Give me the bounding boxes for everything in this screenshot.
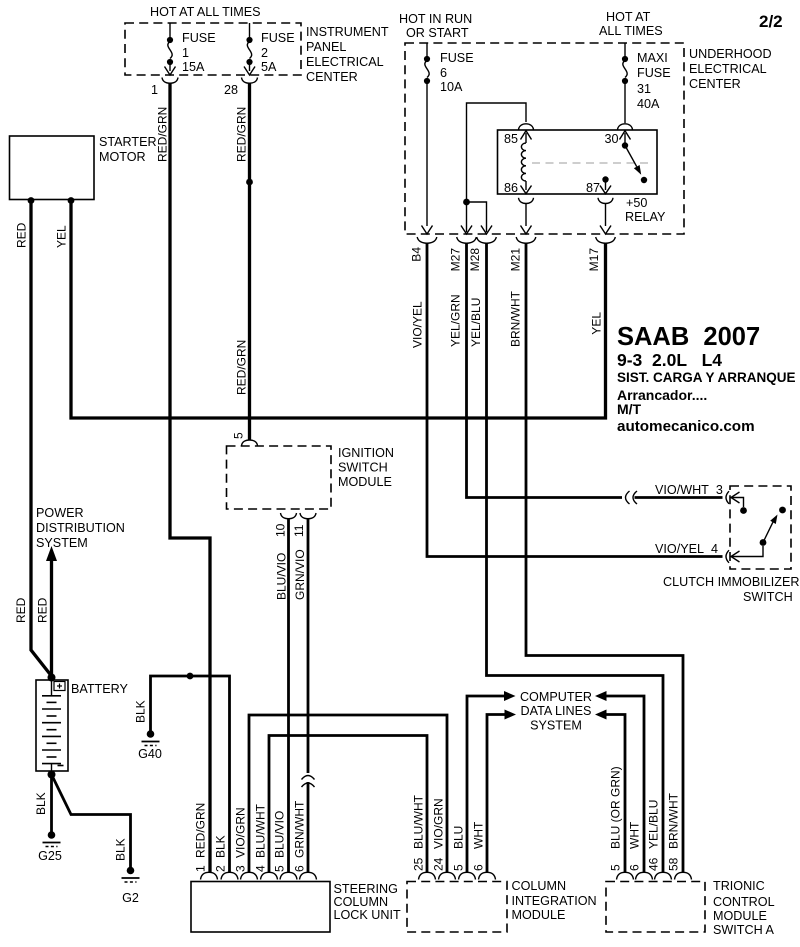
svg-text:85: 85 (504, 132, 518, 146)
svg-text:31: 31 (637, 82, 651, 96)
svg-text:ALL TIMES: ALL TIMES (599, 24, 663, 38)
clutch switch pin 3 entry (726, 491, 747, 514)
relay +50 box (498, 130, 658, 194)
svg-text:BLK: BLK (134, 700, 148, 723)
wire YEL from starter motor to underhood M17 (71, 201, 606, 419)
svg-text:87: 87 (586, 181, 600, 195)
svg-text:YEL: YEL (590, 312, 604, 335)
svg-text:FUSE: FUSE (182, 31, 216, 45)
svg-text:FUSE: FUSE (637, 66, 671, 80)
svg-text:BLU/WHT: BLU/WHT (412, 794, 426, 849)
svg-text:POWER: POWER (36, 506, 84, 520)
svg-text:OR START: OR START (406, 26, 469, 40)
connectors below underhood box (B4 M27 M28 M21 M17) (417, 237, 615, 243)
svg-text:G25: G25 (38, 849, 62, 863)
wire BLU/VIO ignition pin 10 to steering column lock pin 5 (287, 519, 290, 872)
svg-text:BLU (OR GRN): BLU (OR GRN) (609, 766, 623, 849)
svg-text:SAAB 2007: SAAB 2007 (617, 323, 760, 351)
svg-text:M/T: M/T (617, 401, 642, 417)
column integration pin connectors 25 24 5 6 (419, 872, 496, 879)
svg-text:MODULE: MODULE (713, 909, 767, 923)
relay switch pin 30 to 87 (586, 131, 647, 195)
svg-text:DATA LINES: DATA LINES (521, 704, 592, 718)
svg-text:2: 2 (261, 46, 268, 60)
svg-text:BLU/VIO: BLU/VIO (273, 811, 287, 858)
svg-text:G2: G2 (122, 891, 139, 905)
svg-text:RED/GRN: RED/GRN (235, 107, 249, 162)
svg-text:4: 4 (254, 865, 268, 872)
svg-text:10A: 10A (440, 80, 463, 94)
fuse F2 5A (244, 23, 295, 75)
svg-text:YEL/BLU: YEL/BLU (647, 800, 661, 849)
svg-text:40A: 40A (637, 97, 660, 111)
svg-text:SYSTEM: SYSTEM (36, 536, 88, 550)
svg-text:MOTOR: MOTOR (99, 150, 146, 164)
wire BLK battery negative to ground G25 (34, 775, 52, 832)
svg-text:INTEGRATION: INTEGRATION (512, 894, 597, 908)
svg-text:FUSE: FUSE (440, 51, 474, 65)
fuse F1 15A (165, 23, 216, 75)
svg-text:SWITCH: SWITCH (338, 461, 388, 475)
svg-text:B4: B4 (410, 247, 424, 262)
svg-text:5: 5 (452, 864, 466, 871)
svg-text:HOT AT ALL TIMES: HOT AT ALL TIMES (150, 5, 261, 19)
wire BLU/WHT steering pin 4 to column integration pin 25 (269, 736, 427, 873)
svg-text:BLU/WHT: BLU/WHT (254, 803, 268, 858)
svg-text:RELAY: RELAY (625, 210, 666, 224)
wire RED/GRN from fuse 2 to ignition switch module pin 5 (248, 83, 251, 440)
svg-text:YEL: YEL (55, 225, 69, 248)
svg-text:CONTROL: CONTROL (713, 895, 775, 909)
wire VIO/YEL B4 to clutch immobilizer switch pin 4 (427, 243, 723, 557)
svg-text:15A: 15A (182, 60, 205, 74)
svg-text:VIO/YEL 4: VIO/YEL 4 (655, 542, 718, 556)
relay coil pin 85 to 86 (504, 131, 532, 195)
svg-text:FUSE: FUSE (261, 31, 295, 45)
svg-text:COLUMN: COLUMN (334, 895, 389, 909)
ignition switch module (dashed box) (227, 446, 394, 509)
svg-text:10: 10 (274, 523, 288, 537)
svg-text:MODULE: MODULE (512, 908, 566, 922)
clutch immobilizer switch (dashed box) (663, 486, 799, 604)
wire color labels below underhood box (411, 290, 604, 348)
connector below fuse 2 / pin 28 (224, 78, 258, 98)
clutch switch arm and fixed contact (763, 507, 786, 543)
svg-text:LOCK UNIT: LOCK UNIT (334, 908, 401, 922)
wire BLK steering column lock pin 2 to ground G40 (134, 673, 230, 872)
connector at relay pin 85 (519, 124, 534, 130)
trionic control module (dashed box) (606, 879, 775, 937)
svg-text:VIO/GRN: VIO/GRN (234, 807, 248, 858)
wire RED/GRN from fuse 1 to steering column lock pin 1 (170, 83, 210, 872)
svg-text:MODULE: MODULE (338, 475, 392, 489)
svg-text:BLU/VIO: BLU/VIO (275, 553, 289, 600)
svg-text:5: 5 (232, 432, 246, 439)
svg-text:TRIONIC: TRIONIC (713, 879, 765, 893)
svg-text:STEERING: STEERING (334, 882, 398, 896)
svg-text:SIST. CARGA Y ARRANQUE: SIST. CARGA Y ARRANQUE (617, 370, 796, 385)
svg-text:MAXI: MAXI (637, 51, 668, 65)
svg-text:+50: +50 (626, 196, 647, 210)
column integration module (dashed box) (407, 879, 597, 932)
wire GRN/VIO-GRN/WHT ignition pin 11 to steering column lock pin 6 (293, 519, 315, 872)
svg-text:58: 58 (667, 857, 681, 871)
ground G25 (38, 831, 62, 863)
svg-text:VIO/YEL: VIO/YEL (411, 301, 425, 348)
wire WHT from trionic pin 6 to data lines (arrow) (595, 691, 644, 872)
svg-text:YEL/BLU: YEL/BLU (469, 298, 483, 347)
wire RED from starter motor to battery positive (31, 201, 52, 677)
computer data lines system label (520, 690, 592, 733)
svg-text:1: 1 (194, 865, 208, 872)
svg-text:YEL/GRN: YEL/GRN (449, 294, 463, 347)
svg-text:RED/GRN: RED/GRN (235, 340, 249, 395)
svg-text:RED: RED (14, 597, 28, 623)
svg-text:9-3 2.0L L4: 9-3 2.0L L4 (617, 350, 722, 370)
svg-text:24: 24 (432, 857, 446, 871)
wire BLU from column integration pin 5 to data lines (arrow) (467, 691, 516, 872)
relay internal dashed divider (532, 162, 650, 164)
svg-text:30: 30 (604, 132, 618, 146)
steering column lock pin labels (194, 800, 307, 872)
svg-text:RED: RED (36, 597, 50, 623)
fuse F6 10A (424, 43, 474, 226)
svg-text:5A: 5A (261, 60, 277, 74)
svg-text:VIO/GRN: VIO/GRN (432, 798, 446, 849)
svg-text:1: 1 (182, 46, 189, 60)
svg-text:SYSTEM: SYSTEM (530, 719, 582, 733)
svg-text:G40: G40 (138, 747, 162, 761)
wire BLK battery negative to ground G2 (52, 775, 131, 868)
svg-text:25: 25 (412, 857, 426, 871)
arrows entering underhood box bottom: B4 M27 M28 M21 M17 (422, 226, 612, 235)
steering column lock pin connectors 1-6 (201, 872, 317, 879)
svg-text:BATTERY: BATTERY (71, 682, 129, 696)
svg-text:GRN/WHT: GRN/WHT (293, 800, 307, 858)
ground G40 (138, 730, 162, 761)
svg-text:BLK: BLK (34, 792, 48, 815)
connectors at ignition pins 10 11 (274, 513, 317, 537)
wire YEL/BLU M28 to trionic pin 46 (487, 243, 664, 872)
wire VIO/GRN steering pin 3 to column integration pin 24 (249, 715, 447, 872)
wire RED battery positive to power distribution system (arrow up) (14, 546, 57, 676)
svg-text:11: 11 (292, 524, 306, 537)
connector below relay pin 87 (598, 198, 613, 204)
svg-text:M28: M28 (468, 248, 482, 272)
wire feeding relay coil from M27/M28 junction (463, 103, 526, 232)
svg-text:RED/GRN: RED/GRN (156, 107, 170, 162)
underhood electrical center (dashed box) (405, 43, 684, 234)
starter motor box (10, 135, 157, 204)
svg-text:BRN/WHT: BRN/WHT (509, 290, 523, 347)
svg-text:CENTER: CENTER (689, 77, 741, 91)
svg-text:BLU: BLU (452, 826, 466, 849)
svg-text:5: 5 (273, 865, 287, 872)
svg-text:2/2: 2/2 (759, 12, 783, 31)
svg-text:STARTER: STARTER (99, 135, 157, 149)
connector at ignition pin 5 (232, 432, 258, 446)
svg-text:COMPUTER: COMPUTER (520, 690, 592, 704)
svg-text:automecanico.com: automecanico.com (617, 418, 755, 435)
trionic pin connectors 5 6 46 58 (617, 872, 692, 879)
svg-text:RED/GRN: RED/GRN (194, 803, 208, 858)
wire WHT from column integration pin 6 to data lines (arrow) (487, 710, 516, 873)
svg-text:1: 1 (151, 83, 158, 97)
connector below relay pin 86 (519, 198, 534, 204)
wire YEL/GRN M27 to clutch immobilizer switch pin 3 (467, 243, 623, 498)
column integration pin labels (412, 794, 486, 871)
svg-text:IGNITION: IGNITION (338, 446, 394, 460)
instrument panel electrical center (dashed box) (125, 23, 301, 75)
svg-text:DISTRIBUTION: DISTRIBUTION (36, 521, 125, 535)
maxi fuse 31 40A (622, 43, 671, 123)
svg-text:HOT AT: HOT AT (606, 10, 651, 24)
steering column lock unit box (191, 882, 401, 933)
svg-text:CLUTCH IMMOBILIZER: CLUTCH IMMOBILIZER (663, 575, 799, 589)
svg-text:6: 6 (472, 864, 486, 871)
connector at relay pin 30 (618, 124, 633, 130)
svg-text:WHT: WHT (628, 821, 642, 849)
svg-text:46: 46 (647, 857, 661, 871)
svg-text:6: 6 (293, 865, 307, 872)
svg-text:2: 2 (214, 865, 228, 872)
svg-text:WHT: WHT (472, 821, 486, 849)
svg-text:CENTER: CENTER (306, 70, 358, 84)
svg-text:HOT IN RUN: HOT IN RUN (399, 12, 472, 26)
relay label +50 RELAY (625, 196, 666, 224)
svg-text:VIO/WHT 3: VIO/WHT 3 (655, 483, 723, 497)
svg-text:M27: M27 (449, 248, 463, 272)
svg-text:M21: M21 (509, 248, 523, 272)
svg-text:ELECTRICAL: ELECTRICAL (306, 55, 384, 69)
svg-text:UNDERHOOD: UNDERHOOD (689, 47, 772, 61)
battery (36, 674, 129, 779)
svg-text:GRN/VIO: GRN/VIO (293, 549, 307, 600)
connector below fuse 1 / pin 1 (151, 78, 178, 98)
svg-text:ELECTRICAL: ELECTRICAL (689, 62, 767, 76)
svg-text:SWITCH: SWITCH (743, 590, 793, 604)
svg-text:BLK: BLK (214, 835, 228, 858)
svg-text:INSTRUMENT: INSTRUMENT (306, 25, 389, 39)
svg-text:SWITCH A: SWITCH A (713, 923, 774, 937)
svg-text:RED: RED (15, 222, 29, 248)
clutch switch pin 4 entry (726, 539, 766, 563)
svg-text:COLUMN: COLUMN (512, 879, 567, 893)
svg-text:5: 5 (609, 864, 623, 871)
inline connector on VIO/WHT wire (626, 491, 723, 504)
wire BLU (OR GRN) from trionic pin 5 to data lines (arrow) (595, 710, 625, 873)
svg-text:PANEL: PANEL (306, 40, 346, 54)
svg-text:86: 86 (504, 181, 518, 195)
wire BRN/WHT M21 to trionic pin 58 (526, 243, 683, 872)
svg-text:BLK: BLK (114, 838, 128, 861)
svg-text:M17: M17 (587, 248, 601, 272)
SAAB title block (617, 323, 796, 435)
ground G2 (122, 867, 140, 905)
svg-text:BRN/WHT: BRN/WHT (667, 792, 681, 849)
svg-text:28: 28 (224, 83, 238, 97)
power distribution system label (36, 506, 125, 550)
svg-text:6: 6 (628, 864, 642, 871)
trionic pin labels (609, 766, 681, 871)
svg-text:3: 3 (234, 865, 248, 872)
pin labels B4 M27 M28 M21 M17 (410, 247, 602, 272)
svg-text:6: 6 (440, 66, 447, 80)
